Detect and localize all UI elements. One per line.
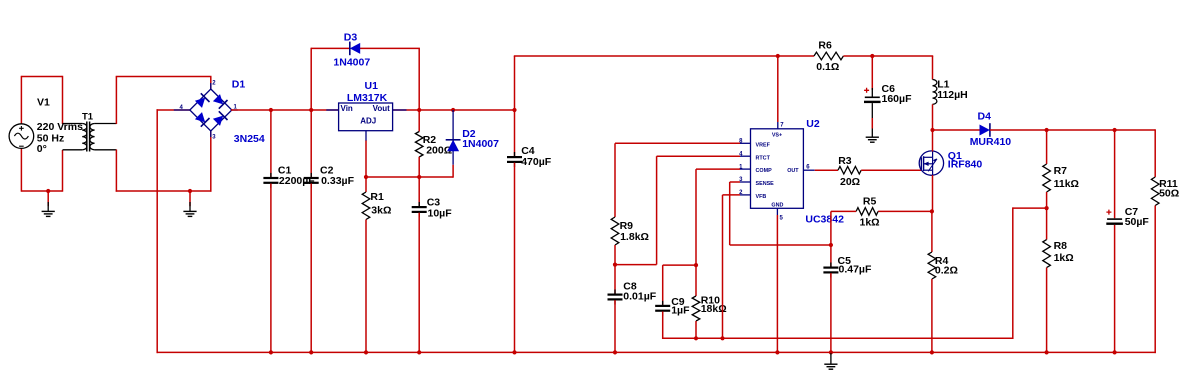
wire R8 lower	[1046, 268, 1048, 354]
svg-text:2200µF: 2200µF	[279, 175, 315, 187]
wire bridge top lead	[210, 77, 212, 90]
svg-text:IRF840: IRF840	[948, 159, 983, 171]
wire R11 lower	[1154, 206, 1156, 354]
wire output rail	[990, 129, 1155, 131]
wire secondary bottom riser	[115, 150, 117, 192]
capacitor C6	[865, 97, 880, 99]
junction dot R10/feedback rail	[694, 336, 698, 340]
wire C7 upper	[1114, 130, 1116, 218]
wire R10 upper	[695, 265, 697, 296]
svg-text:MUR410: MUR410	[970, 136, 1012, 148]
wire D3 top left	[311, 47, 350, 49]
wire C6 lower	[871, 103, 873, 118]
U2 pin 1 stub	[740, 168, 751, 170]
transformer T1 secondary lead bottom	[95, 149, 117, 151]
wire C4 upper	[514, 110, 516, 156]
wire C1 upper	[270, 110, 272, 177]
wire secondary bottom	[116, 190, 212, 192]
resistor R8	[1043, 240, 1051, 268]
junction dot source/R5	[930, 209, 934, 213]
junction dot R4/bottom rail	[930, 350, 934, 354]
svg-text:0.01µF: 0.01µF	[623, 290, 656, 302]
junction dot C8/bottom rail	[613, 350, 617, 354]
wire D4 anode	[933, 129, 980, 131]
wire R5 right	[878, 210, 933, 212]
diode D4	[980, 125, 990, 136]
bridge D1 pin stub bottom	[210, 131, 212, 137]
resistor R7	[1043, 164, 1051, 192]
svg-text:1N4007: 1N4007	[333, 56, 370, 68]
svg-text:10µF: 10µF	[428, 208, 453, 220]
svg-text:VREF: VREF	[756, 142, 771, 148]
U2 pin 7 stub	[777, 122, 779, 129]
wire R8 upper	[1046, 208, 1048, 240]
svg-text:R7: R7	[1054, 165, 1068, 177]
wire L1 lower	[932, 104, 934, 130]
wire R1 lower	[365, 220, 367, 354]
junction dot C7/output rail	[1113, 128, 1117, 132]
svg-text:1.8kΩ: 1.8kΩ	[620, 231, 649, 243]
wire left drop to bottom rail	[156, 109, 158, 353]
wire C4 lower	[514, 163, 516, 354]
svg-text:3kΩ: 3kΩ	[371, 205, 391, 217]
wire bridge bottom lead	[210, 131, 212, 192]
junction dot C6/top rail	[870, 54, 874, 58]
U2 pin GND stub	[776, 208, 778, 215]
wire R2 upper	[418, 110, 420, 132]
svg-text:U2: U2	[806, 118, 820, 130]
svg-text:D4: D4	[978, 111, 992, 123]
diode D3	[350, 43, 360, 54]
wire ADJ vertical	[365, 141, 367, 178]
ground at secondary	[183, 210, 196, 212]
wire R5 left drop	[830, 211, 832, 245]
wire C3 upper	[418, 177, 420, 206]
junction dot VS+/top rail	[776, 54, 780, 58]
svg-text:50Ω: 50Ω	[1159, 188, 1179, 200]
svg-text:D3: D3	[344, 32, 358, 44]
wire VFB stub	[723, 194, 741, 196]
svg-text:V1: V1	[37, 97, 50, 109]
controller U2 UC3842 box	[751, 129, 804, 209]
junction dot C1/main rail	[269, 108, 273, 112]
junction dot C5/bottom rail ground	[829, 350, 833, 354]
inductor L1	[933, 80, 937, 105]
wire V1 top	[21, 76, 62, 78]
wire D3 right leg	[418, 48, 420, 110]
wire ground stem main	[830, 352, 832, 364]
resistor R1	[362, 192, 370, 220]
wire riser to top rail	[514, 56, 516, 111]
wire RTCT horizontal	[657, 155, 740, 157]
wire VFB drop	[722, 195, 724, 339]
wire top rail left	[514, 55, 814, 57]
wire D3 top right	[360, 47, 420, 49]
capacitor C1	[270, 173, 272, 177]
junction dot SENSE/C5	[829, 243, 833, 247]
svg-text:Vin: Vin	[341, 104, 353, 113]
junction dot C3/bottom rail	[417, 350, 421, 354]
wire VS+ drop	[777, 56, 779, 122]
svg-text:LM317K: LM317K	[347, 92, 388, 104]
wire main rail	[231, 109, 515, 111]
wire C2 upper	[310, 110, 312, 177]
diode D2	[447, 140, 459, 151]
junction dot VFB/feedback rail	[720, 336, 724, 340]
junction dot COMP node	[694, 263, 698, 267]
U2 pin 2 stub	[740, 194, 751, 196]
voltage source V1	[9, 124, 34, 149]
resistor R2	[415, 132, 423, 158]
svg-text:OUT: OUT	[787, 168, 799, 174]
wire secondary top	[116, 76, 212, 78]
junction dot C1/bottom rail	[269, 350, 273, 354]
wire gate	[861, 169, 921, 171]
junction dot R1/bottom rail	[364, 350, 368, 354]
wire D2 leg navy	[452, 110, 454, 165]
svg-text:0°: 0°	[37, 143, 47, 155]
wire C7 lower	[1114, 225, 1116, 353]
transformer T1 primary coil	[82, 124, 87, 150]
wire U2 GND drop	[776, 215, 778, 353]
svg-text:50µF: 50µF	[1125, 216, 1150, 228]
regulator U1 LM317K box	[339, 103, 393, 131]
wire bottom rail	[157, 351, 1156, 353]
ground at bottom rail	[824, 363, 837, 365]
resistor R11	[1151, 177, 1159, 206]
wire C8 lower	[614, 300, 616, 353]
capacitor C4	[514, 152, 516, 156]
svg-text:UC3842: UC3842	[805, 214, 844, 226]
capacitor C8	[614, 290, 616, 294]
junction dot divider tap	[1045, 206, 1049, 210]
junction dot V1 ground	[46, 189, 50, 193]
U2 pin 3 stub	[740, 181, 751, 183]
wire COMP drop	[695, 169, 697, 265]
svg-text:3N254: 3N254	[234, 133, 265, 145]
svg-text:112µH: 112µH	[937, 89, 968, 101]
wire feedback riser	[1012, 207, 1014, 339]
svg-text:1N4007: 1N4007	[462, 138, 499, 150]
resistor R4	[928, 252, 936, 279]
junction dot RTCT node	[613, 263, 617, 267]
wire R7 upper	[1046, 130, 1048, 164]
wire V1 right upper	[62, 76, 64, 124]
wire drain	[932, 130, 934, 152]
wire C1 lower	[270, 184, 272, 354]
resistor R9	[611, 217, 619, 245]
junction dot C2/main rail	[309, 108, 313, 112]
wire C2 lower	[310, 184, 312, 354]
transformer T1 secondary coil	[90, 124, 95, 150]
wire V1 left lower	[20, 148, 22, 192]
wire COMP horizontal	[696, 168, 740, 170]
junction dot R7/output rail	[1045, 128, 1049, 132]
junction dot C4/main rail	[512, 108, 516, 112]
wire VREF horizontal	[615, 142, 740, 144]
wire feedback rail	[663, 337, 1013, 339]
wire COMP node horizontal	[663, 264, 696, 266]
svg-text:11kΩ: 11kΩ	[1054, 178, 1079, 190]
capacitor C5	[830, 263, 832, 267]
wire R10 lower	[695, 321, 697, 338]
wire C8 upper	[614, 265, 616, 294]
wire bridge minus to left drop	[157, 109, 191, 111]
resistor R6	[814, 52, 843, 60]
capacitor C2	[310, 173, 312, 177]
junction dot secondary ground	[188, 189, 192, 193]
svg-text:0.1Ω: 0.1Ω	[816, 61, 839, 73]
capacitor C9	[662, 301, 664, 305]
svg-text:0.2Ω: 0.2Ω	[935, 265, 958, 277]
U2 pin 8 stub	[740, 142, 751, 144]
transformer T1 primary lead bottom	[63, 149, 83, 151]
U1 pin ADJ stub	[365, 131, 367, 141]
wire R4 lower	[931, 279, 933, 353]
capacitor C6 lead	[871, 88, 873, 97]
svg-text:Vout: Vout	[373, 104, 391, 113]
wire C9 upper	[662, 265, 664, 305]
wire R7 lower	[1046, 192, 1048, 209]
wire D3 left leg	[310, 48, 312, 110]
svg-text:1µF: 1µF	[671, 305, 690, 317]
junction dot C4/bottom rail	[512, 350, 516, 354]
wire D2 lower red	[452, 165, 454, 178]
resistor R3	[838, 166, 861, 174]
wire SENSE drop	[729, 182, 731, 245]
junction dot C2/bottom rail	[309, 350, 313, 354]
junction dot R8/bottom rail	[1045, 350, 1049, 354]
transistor Q1	[919, 151, 943, 175]
wire L1 upper	[932, 56, 934, 80]
svg-text:0.33µF: 0.33µF	[321, 175, 354, 187]
wire OUT red	[815, 169, 838, 171]
wire C3 lower	[418, 213, 420, 354]
svg-text:VS+: VS+	[772, 133, 782, 139]
bridge D1 pin stub top	[210, 83, 212, 89]
U1 pin Vout stub	[393, 109, 407, 111]
ground at V1	[42, 210, 55, 212]
capacitor C7	[1107, 218, 1122, 220]
svg-text:SENSE: SENSE	[756, 181, 775, 187]
U1 pin Vin stub	[326, 109, 338, 111]
junction dot D2/main rail	[451, 108, 455, 112]
bridge D1 pin stub right	[232, 109, 238, 111]
junction dot C7/bottom rail	[1113, 350, 1117, 354]
junction dot R2/main rail	[417, 108, 421, 112]
wire V1 right lower	[62, 150, 64, 192]
bridge D1 pin stub left	[174, 109, 190, 111]
wire R2 lower	[418, 157, 420, 178]
U2 pin OUT stub	[803, 169, 814, 171]
resistor R10	[692, 296, 700, 321]
junction dot ADJ/R2/C3	[417, 175, 421, 179]
wire R9 lower	[614, 245, 616, 265]
wire top rail right	[843, 55, 933, 57]
svg-text:470µF: 470µF	[521, 156, 552, 168]
wire ADJ horizontal	[366, 176, 453, 178]
wire V1 left upper	[20, 76, 22, 124]
wire V1 bottom	[21, 190, 62, 192]
transformer T1 secondary lead top	[95, 123, 117, 125]
wire ground stem V1	[47, 191, 49, 206]
svg-text:VFB: VFB	[756, 194, 767, 200]
svg-text:ADJ: ADJ	[360, 117, 376, 126]
svg-text:0.47µF: 0.47µF	[839, 264, 872, 276]
svg-text:R3: R3	[838, 155, 852, 167]
svg-text:C4: C4	[521, 145, 535, 157]
wire RTCT node horizontal	[615, 264, 657, 266]
wire C5 lower	[830, 273, 832, 353]
U2 pin 4 stub	[740, 155, 751, 157]
wire SENSE stub	[730, 181, 740, 183]
svg-text:1kΩ: 1kΩ	[1054, 252, 1074, 264]
svg-text:R1: R1	[370, 191, 384, 203]
svg-text:R6: R6	[818, 40, 832, 52]
wire R5 left	[831, 210, 856, 212]
resistor R5	[856, 208, 878, 216]
junction dot drain node	[930, 128, 934, 132]
svg-text:1kΩ: 1kΩ	[860, 216, 880, 228]
bridge rectifier D1 body	[190, 89, 232, 131]
wire C9 lower	[662, 311, 664, 339]
wire R1 upper	[365, 177, 367, 192]
wire C6 upper	[871, 56, 873, 90]
svg-text:GND: GND	[771, 203, 783, 209]
wire divider tap horizontal	[1013, 207, 1047, 209]
wire R11 upper	[1154, 129, 1156, 177]
junction dot U2 GND/bottom rail	[775, 350, 779, 354]
svg-text:U1: U1	[365, 80, 379, 92]
transformer T1 core	[86, 122, 88, 152]
svg-text:D1: D1	[232, 79, 246, 91]
svg-text:160µF: 160µF	[882, 93, 913, 105]
capacitor C3	[418, 202, 420, 206]
wire VREF drop to R9	[614, 143, 616, 217]
junction dot ADJ/R1	[364, 175, 368, 179]
svg-text:R8: R8	[1054, 240, 1068, 252]
svg-text:COMP: COMP	[756, 168, 773, 174]
wire C5 upper	[830, 245, 832, 267]
wire RTCT riser	[656, 156, 658, 264]
transformer T1 primary lead top	[63, 123, 83, 125]
svg-text:R5: R5	[863, 195, 877, 207]
svg-text:20Ω: 20Ω	[840, 176, 860, 188]
wire source	[932, 175, 934, 212]
svg-text:T1: T1	[82, 112, 94, 123]
wire R4 upper	[931, 211, 933, 252]
ground at C6	[866, 136, 879, 138]
wire secondary left riser	[115, 77, 117, 125]
svg-text:RTCT: RTCT	[756, 155, 771, 161]
wire SENSE horizontal	[730, 244, 831, 246]
wire ground stem secondary	[189, 191, 191, 206]
